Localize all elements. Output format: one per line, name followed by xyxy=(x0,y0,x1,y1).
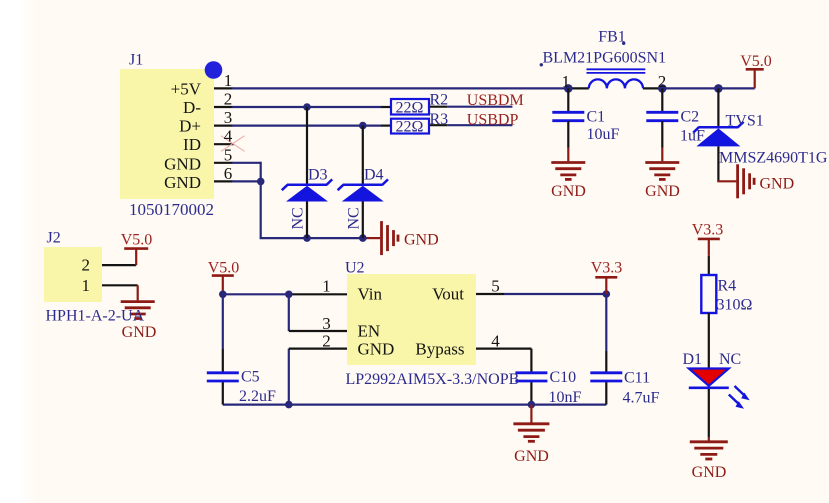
svg-text:NC: NC xyxy=(719,351,741,368)
svg-text:1: 1 xyxy=(562,72,571,91)
svg-text:5: 5 xyxy=(224,145,233,164)
svg-text:J1: J1 xyxy=(129,52,143,69)
svg-text:C1: C1 xyxy=(587,109,606,126)
svg-text:TVS1: TVS1 xyxy=(726,112,764,129)
svg-text:V5.0: V5.0 xyxy=(121,231,153,248)
svg-text:V3.3: V3.3 xyxy=(692,221,724,238)
svg-text:GND: GND xyxy=(122,324,157,341)
svg-text:V5.0: V5.0 xyxy=(208,259,240,276)
svg-text:310Ω: 310Ω xyxy=(717,296,753,313)
svg-text:2.2uF: 2.2uF xyxy=(239,388,276,405)
svg-text:5: 5 xyxy=(491,277,500,296)
svg-text:22Ω: 22Ω xyxy=(396,119,424,136)
svg-text:LP2992AIM5X-3.3/NOPB: LP2992AIM5X-3.3/NOPB xyxy=(346,371,520,388)
svg-text:R2: R2 xyxy=(430,91,449,108)
svg-text:D-: D- xyxy=(183,98,201,117)
svg-text:USBDP: USBDP xyxy=(467,112,519,129)
svg-text:NC: NC xyxy=(345,207,362,229)
svg-text:1050170002: 1050170002 xyxy=(129,200,214,219)
svg-text:3: 3 xyxy=(322,314,331,333)
svg-text:USBDM: USBDM xyxy=(467,92,524,109)
svg-text:HPH1-A-2-UA: HPH1-A-2-UA xyxy=(46,308,145,325)
svg-text:6: 6 xyxy=(224,164,233,183)
svg-text:R4: R4 xyxy=(718,277,737,294)
svg-text:EN: EN xyxy=(358,322,381,341)
svg-text:D+: D+ xyxy=(179,117,201,136)
svg-text:GND: GND xyxy=(645,183,680,200)
svg-text:2: 2 xyxy=(224,90,233,109)
svg-text:GND: GND xyxy=(404,232,439,249)
svg-text:V3.3: V3.3 xyxy=(591,260,623,277)
svg-text:GND: GND xyxy=(692,464,727,481)
svg-text:GND: GND xyxy=(760,175,795,192)
svg-text:GND: GND xyxy=(514,448,549,465)
svg-text:1uF: 1uF xyxy=(680,128,705,145)
svg-text:ID: ID xyxy=(183,135,201,154)
svg-text:22Ω: 22Ω xyxy=(396,100,424,117)
svg-text:2: 2 xyxy=(322,331,331,350)
svg-text:GND: GND xyxy=(551,183,586,200)
svg-text:Vin: Vin xyxy=(358,285,383,304)
svg-text:D1: D1 xyxy=(683,351,703,368)
svg-text:C2: C2 xyxy=(681,109,700,126)
svg-text:U2: U2 xyxy=(345,259,365,276)
svg-text:+5V: +5V xyxy=(171,79,202,98)
svg-text:D3: D3 xyxy=(308,167,328,184)
svg-text:Bypass: Bypass xyxy=(415,339,464,358)
svg-text:GND: GND xyxy=(164,154,201,173)
svg-text:1: 1 xyxy=(322,277,331,296)
svg-text:2: 2 xyxy=(82,256,91,275)
svg-text:NC: NC xyxy=(290,207,307,229)
svg-text:4.7uF: 4.7uF xyxy=(623,389,660,406)
svg-text:FB1: FB1 xyxy=(598,29,626,46)
svg-text:MMSZ4690T1G: MMSZ4690T1G xyxy=(719,149,828,166)
svg-text:1: 1 xyxy=(224,71,233,90)
svg-text:3: 3 xyxy=(224,108,233,127)
svg-text:C11: C11 xyxy=(624,369,650,386)
svg-text:C5: C5 xyxy=(241,369,260,386)
svg-text:10nF: 10nF xyxy=(549,389,582,406)
svg-text:1: 1 xyxy=(82,276,91,295)
svg-text:R3: R3 xyxy=(430,111,449,128)
svg-text:GND: GND xyxy=(358,339,395,358)
svg-text:Vout: Vout xyxy=(432,285,464,304)
svg-text:2: 2 xyxy=(658,72,667,91)
svg-text:4: 4 xyxy=(491,331,500,350)
svg-text:V5.0: V5.0 xyxy=(740,53,772,70)
svg-text:J2: J2 xyxy=(47,229,61,246)
svg-text:C10: C10 xyxy=(550,369,577,386)
svg-text:10uF: 10uF xyxy=(587,126,620,143)
svg-text:BLM21PG600SN1: BLM21PG600SN1 xyxy=(543,49,667,66)
svg-text:GND: GND xyxy=(164,173,201,192)
svg-text:4: 4 xyxy=(224,127,233,146)
svg-text:D4: D4 xyxy=(364,167,384,184)
